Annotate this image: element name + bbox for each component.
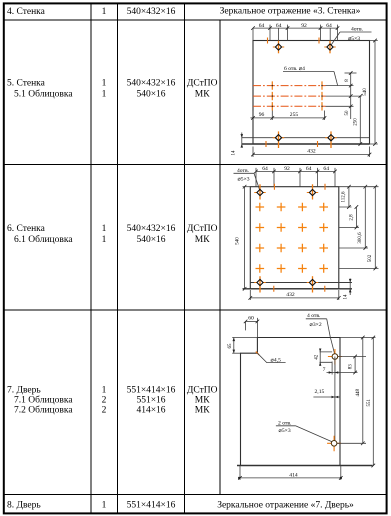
svg-text:8: 8 [345, 79, 350, 82]
svg-text:2,8: 2,8 [350, 214, 355, 221]
table row line y=19.8 [4, 19, 387, 21]
svg-text:96: 96 [259, 112, 265, 118]
table row line y=310.2 [4, 309, 387, 311]
svg-text:64: 64 [306, 166, 312, 172]
dim tick slashes top [251, 26, 339, 30]
centerline row2 [253, 95, 326, 97]
svg-text:92: 92 [301, 23, 307, 29]
orange ticks top edge [274, 184, 325, 190]
top edge extensions [232, 337, 375, 339]
hole ticks on centerlines col2 [321, 81, 323, 110]
lower hole cross [327, 436, 341, 452]
svg-text:МК: МК [195, 396, 210, 406]
svg-text:551: 551 [367, 399, 372, 407]
panel 6 outline [250, 187, 338, 289]
notch line left extension [232, 352, 240, 354]
upper hole circle [332, 354, 338, 360]
right dim 540 [374, 41, 376, 145]
dim ext verticals top [253, 25, 338, 41]
svg-text:4 отв.: 4 отв. [307, 313, 321, 319]
dim line top 64-64-92-64 [253, 27, 338, 29]
svg-text:502: 502 [368, 254, 373, 262]
svg-text:432: 432 [286, 292, 295, 298]
svg-text:⌀4,5: ⌀4,5 [271, 357, 282, 363]
right dim chain 8/50 [350, 73, 352, 119]
hole H1 top left diamond [275, 44, 281, 50]
svg-text:551×414×16: 551×414×16 [127, 500, 176, 510]
dim 432 bottom [250, 297, 338, 299]
svg-text:448: 448 [356, 389, 361, 397]
svg-text:⌀5×3: ⌀5×3 [237, 177, 249, 183]
hole H4 bottom right diamond [309, 279, 315, 285]
svg-text:6.1 Облицовка: 6.1 Облицовка [14, 234, 73, 245]
svg-text:64: 64 [262, 166, 268, 172]
svg-text:2: 2 [102, 396, 107, 406]
svg-text:Зеркальное отражение «7. Дверь: Зеркальное отражение «7. Дверь» [217, 500, 354, 510]
svg-text:1: 1 [102, 235, 107, 245]
svg-text:6 отв. ⌀4: 6 отв. ⌀4 [284, 66, 305, 72]
svg-text:7.2 Облицовка: 7.2 Облицовка [14, 405, 73, 416]
svg-text:14: 14 [344, 294, 349, 300]
svg-text:540×432×16: 540×432×16 [127, 7, 176, 17]
svg-text:1: 1 [102, 90, 107, 100]
svg-text:64: 64 [323, 166, 329, 172]
svg-text:⌀5×3: ⌀5×3 [348, 36, 360, 42]
table column line x=117.6 [117, 4, 119, 513]
svg-text:255: 255 [290, 112, 299, 118]
svg-text:7.1 Облицовка: 7.1 Облицовка [14, 395, 73, 406]
centerline black extensions [326, 86, 362, 107]
svg-text:7. Дверь: 7. Дверь [7, 386, 41, 396]
svg-text:432: 432 [307, 149, 316, 155]
svg-text:8. Дверь: 8. Дверь [7, 500, 41, 510]
dim line top 64-92-64-64 [256, 170, 335, 172]
svg-text:250: 250 [354, 118, 359, 126]
right dim 502 [374, 187, 376, 269]
hole ticks on centerlines col1 [271, 81, 273, 110]
hole column line [334, 357, 336, 444]
svg-text:540×432×16: 540×432×16 [127, 224, 176, 234]
centerline row1 [253, 85, 326, 87]
svg-text:414: 414 [289, 472, 298, 478]
table row line y=494.7 [4, 494, 387, 496]
hole H2 top right diamond [327, 44, 333, 50]
svg-text:83: 83 [349, 364, 354, 370]
svg-text:МК: МК [195, 235, 210, 245]
panel 5 bottom edge thick [242, 143, 370, 145]
svg-text:2,15: 2,15 [315, 389, 325, 395]
right dim 2,8 [355, 207, 357, 228]
svg-text:1: 1 [102, 500, 107, 510]
svg-text:64: 64 [326, 23, 332, 29]
svg-text:551×414×16: 551×414×16 [127, 386, 176, 396]
dim 65 left [233, 338, 235, 354]
right extension lines [339, 187, 379, 269]
svg-text:1: 1 [102, 386, 107, 396]
dim 60 top left [246, 320, 258, 322]
dim 42 at hole [320, 352, 333, 362]
svg-text:1: 1 [102, 224, 107, 234]
svg-text:300,6: 300,6 [358, 232, 363, 244]
left dim 540 [244, 187, 246, 289]
door 7 outline with notch [241, 338, 341, 466]
svg-text:Зеркальное отражение «3. Стенк: Зеркальное отражение «3. Стенка» [220, 6, 361, 16]
orange ticks top edge [268, 38, 320, 44]
svg-text:МК: МК [195, 90, 210, 100]
right dim 250 [359, 96, 361, 144]
dim 414 bottom [240, 466, 341, 481]
svg-text:414×16: 414×16 [136, 406, 165, 416]
svg-text:1: 1 [102, 79, 107, 89]
dim 14 bottom right [349, 279, 351, 296]
dim 448 [362, 338, 364, 444]
svg-text:5. Стенка: 5. Стенка [7, 79, 46, 89]
svg-text:540: 540 [363, 88, 368, 96]
svg-text:112,6: 112,6 [342, 191, 347, 203]
hole H4 bottom right diamond [328, 135, 334, 141]
dim 96 255 line [250, 117, 325, 119]
panel 6 bottom edge thick [243, 288, 353, 290]
svg-text:ДСтПО: ДСтПО [187, 224, 218, 234]
right dim 112,6 [348, 187, 350, 207]
orange ticks bottom edge [274, 286, 325, 292]
upper hole cross [328, 349, 342, 365]
hole H2 top right diamond [309, 189, 315, 195]
svg-text:6. Стенка: 6. Стенка [7, 224, 46, 234]
svg-text:1: 1 [102, 7, 107, 17]
svg-text:ДСтПО: ДСтПО [187, 79, 218, 89]
svg-text:64: 64 [276, 23, 282, 29]
dim 551 [372, 338, 374, 466]
svg-text:42: 42 [314, 354, 319, 360]
svg-text:⌀5×3: ⌀5×3 [279, 428, 291, 434]
panel 5 outline [253, 41, 370, 145]
table row line y=164.6 [4, 164, 387, 166]
svg-text:14: 14 [232, 150, 237, 156]
svg-text:540×16: 540×16 [136, 90, 165, 100]
orange ticks bottom edge [266, 141, 318, 147]
table column line x=90.9 [90, 4, 92, 513]
svg-text:64: 64 [259, 23, 265, 29]
svg-text:50: 50 [345, 110, 350, 116]
dim 14 left [241, 133, 243, 148]
hole center dots [272, 86, 322, 107]
svg-text:540×16: 540×16 [136, 235, 165, 245]
svg-text:ДСтПО: ДСтПО [187, 386, 218, 396]
table column line x=220.2 rows 2-4 [219, 20, 221, 495]
groove line bottom [242, 137, 370, 139]
svg-text:МК: МК [195, 406, 210, 416]
svg-text:4. Стенка: 4. Стенка [7, 7, 46, 17]
svg-text:60: 60 [248, 315, 254, 321]
groove line bottom [250, 282, 352, 284]
svg-text:7: 7 [323, 367, 326, 373]
centerline row3 [253, 105, 326, 107]
svg-text:540×432×16: 540×432×16 [127, 79, 176, 89]
top edge left extension [243, 186, 251, 188]
svg-text:2: 2 [102, 406, 107, 416]
orange corner tick [256, 352, 259, 355]
dim 432 bottom [253, 154, 370, 156]
bottom edge thick [237, 465, 373, 467]
dim 7 under hole [332, 362, 335, 375]
table column line x=184.6 [184, 4, 186, 513]
dim 83 [354, 357, 356, 373]
svg-text:92: 92 [284, 166, 290, 172]
hole H1 top left diamond [257, 189, 263, 195]
svg-text:540: 540 [236, 237, 241, 245]
lower hole right extension [337, 442, 366, 444]
hole H3 bottom left diamond [275, 135, 281, 141]
leader d4,5 [257, 353, 285, 362]
right dim 300,6 [364, 187, 366, 248]
svg-text:551×16: 551×16 [136, 396, 165, 406]
upper hole right extension [338, 356, 366, 358]
svg-text:65: 65 [228, 343, 233, 349]
lower hole circle [331, 441, 337, 447]
svg-text:⌀3×2: ⌀3×2 [310, 322, 322, 328]
plus mark grid 4x4 [256, 203, 329, 273]
svg-text:5.1 Облицовка: 5.1 Облицовка [14, 89, 73, 100]
hole H3 bottom left diamond [257, 279, 263, 285]
